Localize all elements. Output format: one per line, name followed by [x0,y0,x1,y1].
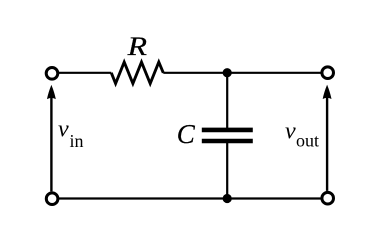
svg-text:out: out [296,131,319,151]
svg-text:in: in [70,131,84,151]
svg-text:v: v [58,116,69,142]
svg-text:C: C [177,119,196,149]
svg-text:R: R [127,33,148,62]
svg-text:v: v [285,118,296,144]
